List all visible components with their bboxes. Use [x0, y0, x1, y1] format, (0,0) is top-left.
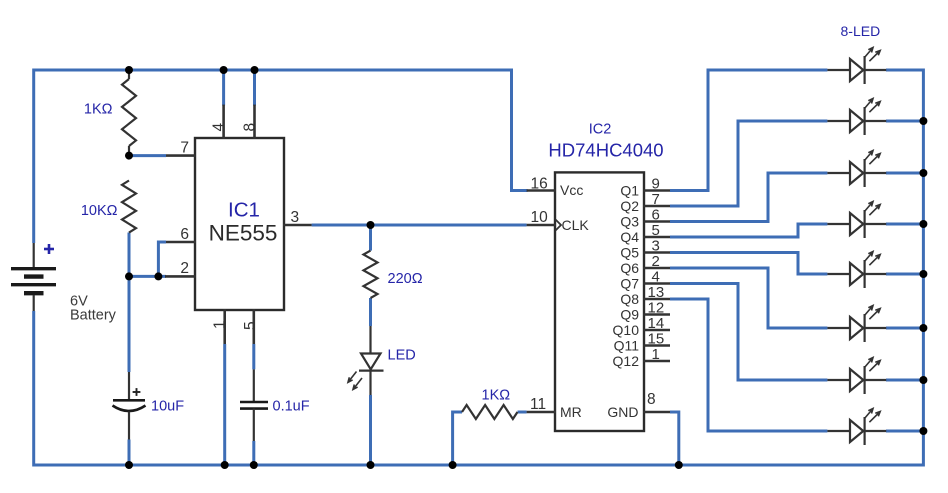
node pin2 / pin6	[154, 272, 162, 280]
svg-text:11: 11	[530, 396, 546, 413]
svg-text:Q6: Q6	[620, 260, 639, 276]
wire: IC2 Q5 to LED5	[670, 253, 827, 275]
wire: LED7 cathode to right bus	[886, 379, 923, 382]
IC1 pin 4	[222, 105, 225, 139]
IC2 pin Q4	[643, 236, 670, 239]
IC2 pin 8 GND	[643, 411, 670, 414]
svg-text:5: 5	[242, 321, 259, 330]
wire: LED8 cathode to right bus	[886, 430, 923, 433]
battery plus sign	[44, 244, 54, 254]
node top bus / pin8	[251, 66, 259, 74]
LED D1	[827, 56, 886, 84]
svg-text:10uF: 10uF	[151, 399, 184, 415]
wire: IC2 Q6 to LED6	[670, 268, 827, 328]
node R2 / pin2 / C1	[125, 272, 133, 280]
LED D5 arrows	[865, 252, 880, 266]
node top bus / R1	[125, 66, 133, 74]
IC2 pin Q5	[643, 251, 670, 254]
resistor R2 10K	[122, 181, 136, 233]
wire: 10K resistor to capacitor node	[128, 233, 131, 373]
node ground / C1	[125, 461, 133, 469]
IC1 pin 3	[283, 224, 312, 227]
LED D4	[827, 210, 886, 238]
svg-text:Q9: Q9	[620, 306, 639, 322]
wire: IC2 Q8 to LED8	[670, 299, 827, 431]
LED D0 indicator	[359, 326, 384, 395]
svg-text:8-LED: 8-LED	[841, 23, 881, 39]
node ground / LED	[367, 461, 375, 469]
wire: top bus to IC1 pin 4	[222, 70, 225, 106]
resistor R4 1K (MR)	[462, 405, 517, 419]
node LED4 cathode bus	[919, 220, 927, 228]
wire: node to IC1 pin 2	[129, 275, 166, 278]
IC2 pin Q11	[643, 344, 670, 347]
LED D0 arrows	[348, 372, 362, 390]
wire: LED2 cathode to right bus	[886, 120, 923, 123]
svg-text:Q5: Q5	[620, 244, 639, 260]
wire: IC2 Q1 to LED1	[670, 70, 827, 191]
svg-text:Q10: Q10	[613, 322, 640, 338]
IC2 pin Q9	[643, 313, 670, 316]
IC2 pin Q10	[643, 329, 670, 332]
LED D3 arrows	[865, 151, 880, 165]
svg-text:HD74HC4040: HD74HC4040	[548, 140, 663, 161]
LED D6 arrows	[865, 306, 880, 320]
IC2 pin Q1	[643, 189, 670, 192]
IC2 pin 16 Vcc	[527, 189, 556, 192]
node ground / C2	[250, 461, 258, 469]
svg-text:14: 14	[648, 315, 665, 332]
wire: IC1 pin 5 to 0.1uF capacitor	[252, 344, 255, 369]
svg-text:15: 15	[648, 330, 665, 347]
svg-text:5: 5	[652, 222, 660, 239]
IC1 pin 8	[253, 105, 256, 139]
LED D1 arrows	[865, 48, 880, 62]
wire: IC1 pin 3 to IC2 CLK	[312, 224, 527, 227]
svg-text:1: 1	[652, 346, 660, 363]
LED D5	[827, 260, 886, 288]
node LED2 cathode bus	[919, 117, 927, 125]
node LED3 cathode bus	[919, 169, 927, 177]
wire: 1K resistor to IC2 MR pin	[518, 411, 527, 414]
svg-text:MR: MR	[560, 404, 582, 420]
svg-text:Q8: Q8	[620, 291, 639, 307]
svg-text:Vcc: Vcc	[560, 182, 583, 198]
wire: LED3 cathode to right bus	[886, 172, 923, 175]
IC1 pin 5	[253, 309, 256, 344]
wire: pin 2 node to IC1 pin 6	[158, 242, 166, 276]
wire: IC2 GND to ground bus	[670, 412, 679, 465]
wire: IC2 Q2 to LED2	[670, 121, 827, 206]
svg-text:10KΩ: 10KΩ	[81, 203, 118, 219]
svg-text:CLK: CLK	[562, 217, 590, 233]
wire: pin3 node to 220 ohm resistor	[369, 225, 372, 251]
svg-text:6: 6	[652, 206, 660, 223]
node LED6 cathode bus	[919, 324, 927, 332]
svg-text:1KΩ: 1KΩ	[482, 388, 511, 404]
svg-text:220Ω: 220Ω	[388, 271, 423, 287]
IC1 pin 1	[223, 309, 226, 344]
clock chevron	[556, 220, 562, 231]
svg-text:16: 16	[531, 176, 548, 193]
IC1 pin 7	[166, 154, 196, 157]
IC2 pin 10 CLK	[527, 224, 556, 227]
wire: LED cathode to ground bus	[369, 395, 372, 465]
node ground / R4	[449, 461, 457, 469]
IC2 pin Q2	[643, 205, 670, 208]
IC2 pin Q8	[643, 298, 670, 301]
wire: LED5 cathode to right bus	[886, 273, 923, 276]
wire: node to IC1 pin 7	[129, 154, 166, 157]
wire: 220 ohm resistor to LED anode	[369, 298, 372, 326]
10uF plus sign	[133, 388, 141, 396]
LED D2 arrows	[865, 99, 880, 113]
wire: ground bus to 1K MR resistor	[453, 412, 462, 465]
IC2 pin Q6	[643, 267, 670, 270]
LED D4 arrows	[865, 202, 880, 216]
node LED7 cathode bus	[919, 376, 927, 384]
svg-text:6: 6	[180, 226, 189, 243]
wire: LED4 cathode to right bus	[886, 223, 923, 226]
IC1 pin 2	[165, 275, 196, 278]
svg-text:Q12: Q12	[613, 353, 640, 369]
svg-text:NE555: NE555	[209, 221, 278, 246]
svg-text:Q3: Q3	[620, 213, 639, 229]
node LED8 cathode bus	[919, 427, 927, 435]
IC2 pin Q3	[643, 220, 670, 223]
IC1 pin 6	[166, 241, 196, 244]
wire: IC2 Q7 to LED7	[670, 284, 827, 381]
battery BT1 6V	[11, 243, 56, 311]
wire: LED6 cathode to right bus	[886, 327, 923, 330]
svg-text:4: 4	[652, 268, 660, 285]
svg-text:GND: GND	[607, 404, 638, 420]
IC2 pin Q12	[643, 360, 670, 363]
svg-text:4: 4	[211, 123, 228, 132]
svg-text:Q4: Q4	[620, 229, 639, 245]
LED D8 arrows	[865, 409, 880, 423]
node pin3 / R3	[367, 221, 375, 229]
svg-text:7: 7	[652, 191, 660, 208]
counter IC2 HD74HC4040 body	[555, 172, 644, 431]
node ground / IC2 GND	[675, 461, 683, 469]
LED D3	[827, 159, 886, 187]
IC2 pin 11 MR	[527, 411, 556, 414]
node LED5 cathode bus	[919, 270, 927, 278]
svg-text:Q1: Q1	[620, 182, 639, 198]
capacitor C2 0.1uF	[240, 369, 268, 441]
svg-text:9: 9	[652, 175, 660, 192]
wire: IC2 Q4 to LED4	[670, 224, 827, 237]
wire: 10uF capacitor to ground bus	[128, 440, 131, 466]
svg-text:1: 1	[212, 320, 229, 329]
svg-text:10: 10	[531, 209, 549, 226]
svg-text:IC1: IC1	[228, 199, 260, 222]
label: 6V Battery	[70, 294, 117, 324]
svg-text:IC2: IC2	[589, 122, 612, 138]
resistor R1 1K	[122, 70, 136, 154]
wire: top bus to IC1 pin 8	[253, 70, 256, 106]
node top bus / pin4	[220, 66, 228, 74]
wire: ground bus - battery negative, bottom rail and right LED cathode bus	[34, 70, 924, 465]
svg-text:LED: LED	[388, 348, 416, 364]
wire: 0.1uF capacitor to ground bus	[252, 441, 255, 465]
wire: IC2 Q3 to LED3	[670, 173, 827, 222]
svg-text:8: 8	[647, 391, 656, 408]
LED D2	[827, 107, 886, 135]
svg-text:3: 3	[652, 237, 660, 254]
svg-text:7: 7	[180, 140, 189, 157]
wire: battery positive to top supply bus and down to IC2 Vcc	[34, 70, 528, 243]
IC2 pin Q7	[643, 282, 670, 285]
svg-text:3: 3	[291, 209, 300, 226]
svg-text:Battery: Battery	[70, 308, 117, 324]
LED D7	[827, 366, 886, 394]
node R1-R2 pin7	[125, 152, 133, 160]
svg-text:13: 13	[648, 284, 665, 301]
capacitor C1 10uF electrolytic	[113, 372, 146, 440]
svg-text:Q2: Q2	[620, 198, 639, 214]
svg-text:Q7: Q7	[620, 275, 639, 291]
svg-text:12: 12	[648, 299, 665, 316]
LED D7 arrows	[865, 358, 880, 372]
svg-text:2: 2	[180, 260, 189, 277]
LED D6	[827, 314, 886, 342]
node ground / pin1	[221, 461, 229, 469]
svg-text:1KΩ: 1KΩ	[84, 102, 113, 118]
resistor R3 220 ohm	[364, 251, 378, 298]
svg-text:0.1uF: 0.1uF	[273, 399, 310, 415]
svg-text:8: 8	[242, 123, 259, 132]
LED D8	[827, 417, 886, 445]
wire: IC1 pin 1 to ground bus	[223, 344, 226, 465]
svg-text:2: 2	[652, 253, 660, 270]
op-amp timer IC1 NE555 body	[195, 138, 284, 310]
svg-text:Q11: Q11	[614, 337, 640, 353]
